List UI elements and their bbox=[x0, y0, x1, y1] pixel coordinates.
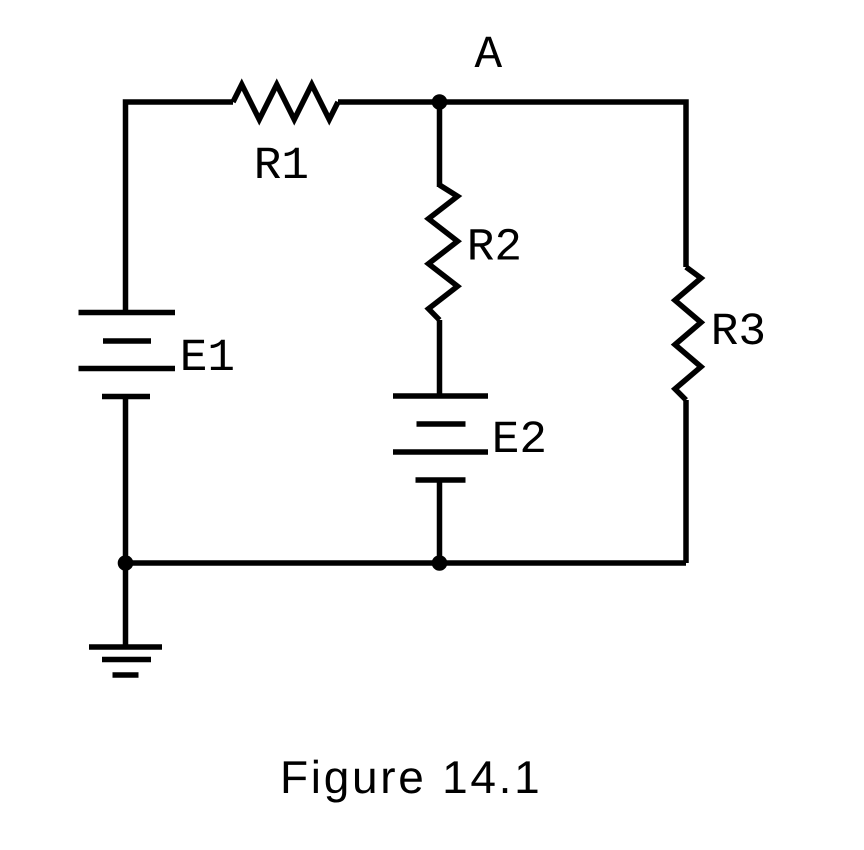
wire: bottom rail bbox=[126, 560, 687, 566]
wire: bottom-left junction down to ground bbox=[123, 563, 129, 647]
wire: top-left segment and left vertical down to E1 positive plate bbox=[126, 102, 234, 313]
battery E2 bbox=[393, 396, 488, 480]
wire: R3 bottom lead to bottom-right corner bbox=[683, 400, 689, 563]
resistor R2 bbox=[429, 185, 458, 320]
junction dot: bottom-left bbox=[118, 555, 134, 571]
svg-text:R2: R2 bbox=[467, 222, 522, 274]
svg-text:Figure 14.1: Figure 14.1 bbox=[280, 751, 542, 803]
wire: node A to top-right corner and down to R3 bbox=[440, 102, 687, 267]
resistor R3 bbox=[675, 267, 701, 400]
svg-text:A: A bbox=[475, 29, 503, 81]
wire: R1 right lead to node A bbox=[338, 99, 440, 105]
battery E1 bbox=[79, 313, 176, 397]
svg-text:E1: E1 bbox=[180, 332, 235, 384]
wire: E1 negative plate to bottom-left junction bbox=[123, 397, 129, 564]
wire: node A down to R2 top lead bbox=[437, 102, 443, 187]
resistor R1 bbox=[233, 85, 338, 120]
svg-text:R3: R3 bbox=[711, 306, 766, 358]
ground bbox=[89, 647, 162, 675]
wire: R2 bottom lead to E2 positive plate bbox=[437, 320, 443, 396]
svg-text:E2: E2 bbox=[492, 414, 547, 466]
wire: E2 negative plate to bottom middle junction bbox=[437, 480, 443, 563]
svg-text:R1: R1 bbox=[254, 140, 309, 192]
node A junction dot bbox=[432, 94, 448, 110]
junction dot: bottom-middle bbox=[432, 555, 448, 571]
